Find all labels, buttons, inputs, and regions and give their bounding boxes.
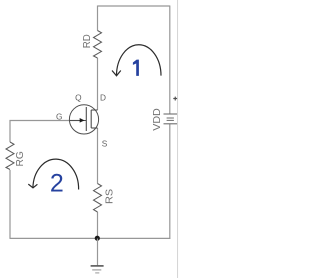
wire drain column upper (top rail to RD)	[97, 6, 99, 31]
svg-text:2: 2	[50, 170, 64, 198]
label RS	[105, 189, 116, 204]
wire right lower (battery - to bottom rail)	[169, 124, 171, 239]
wire bottom rail	[10, 237, 170, 239]
resistor RD	[94, 31, 102, 59]
resistor RG	[6, 142, 14, 170]
svg-text:Q: Q	[75, 92, 82, 102]
svg-text:RD: RD	[82, 34, 93, 48]
label VDD	[152, 108, 163, 131]
resistor RS	[94, 184, 102, 213]
canvas border line right	[177, 0, 179, 278]
svg-text:D: D	[100, 93, 106, 103]
loop arrow 1	[112, 45, 161, 76]
svg-text:RG: RG	[15, 151, 26, 166]
node junction dot (source/bottom rail)	[95, 236, 100, 241]
wire source column upper (transistor source to RS)	[97, 128, 99, 184]
svg-text:VDD: VDD	[152, 108, 163, 131]
loop current number 2	[50, 170, 64, 198]
ground	[91, 239, 104, 273]
loop current number 1	[133, 60, 139, 76]
pin label G	[56, 111, 62, 121]
wire left lower (bottom rail up to RG)	[9, 170, 11, 239]
label Q	[75, 92, 82, 102]
loop arrow 2	[28, 159, 78, 189]
svg-text:S: S	[102, 139, 108, 149]
label RG	[15, 151, 26, 166]
transistor Q (MOSFET)	[69, 105, 98, 134]
wire source column lower (RS to bottom rail)	[97, 212, 99, 239]
wire top (drain node to VDD+)	[98, 5, 170, 7]
wire gate (corner to transistor gate)	[10, 120, 80, 122]
battery VDD	[164, 114, 178, 124]
wire drain column lower (RD to transistor drain)	[97, 58, 99, 110]
label RD	[82, 34, 93, 48]
svg-text:G: G	[56, 111, 62, 121]
svg-text:RS: RS	[105, 189, 116, 204]
pin label S	[102, 139, 108, 149]
wire right upper (top to battery +)	[169, 6, 171, 114]
battery plus sign	[173, 97, 177, 101]
wire left upper (RG to gate corner)	[9, 120, 11, 142]
pin label D	[100, 93, 106, 103]
